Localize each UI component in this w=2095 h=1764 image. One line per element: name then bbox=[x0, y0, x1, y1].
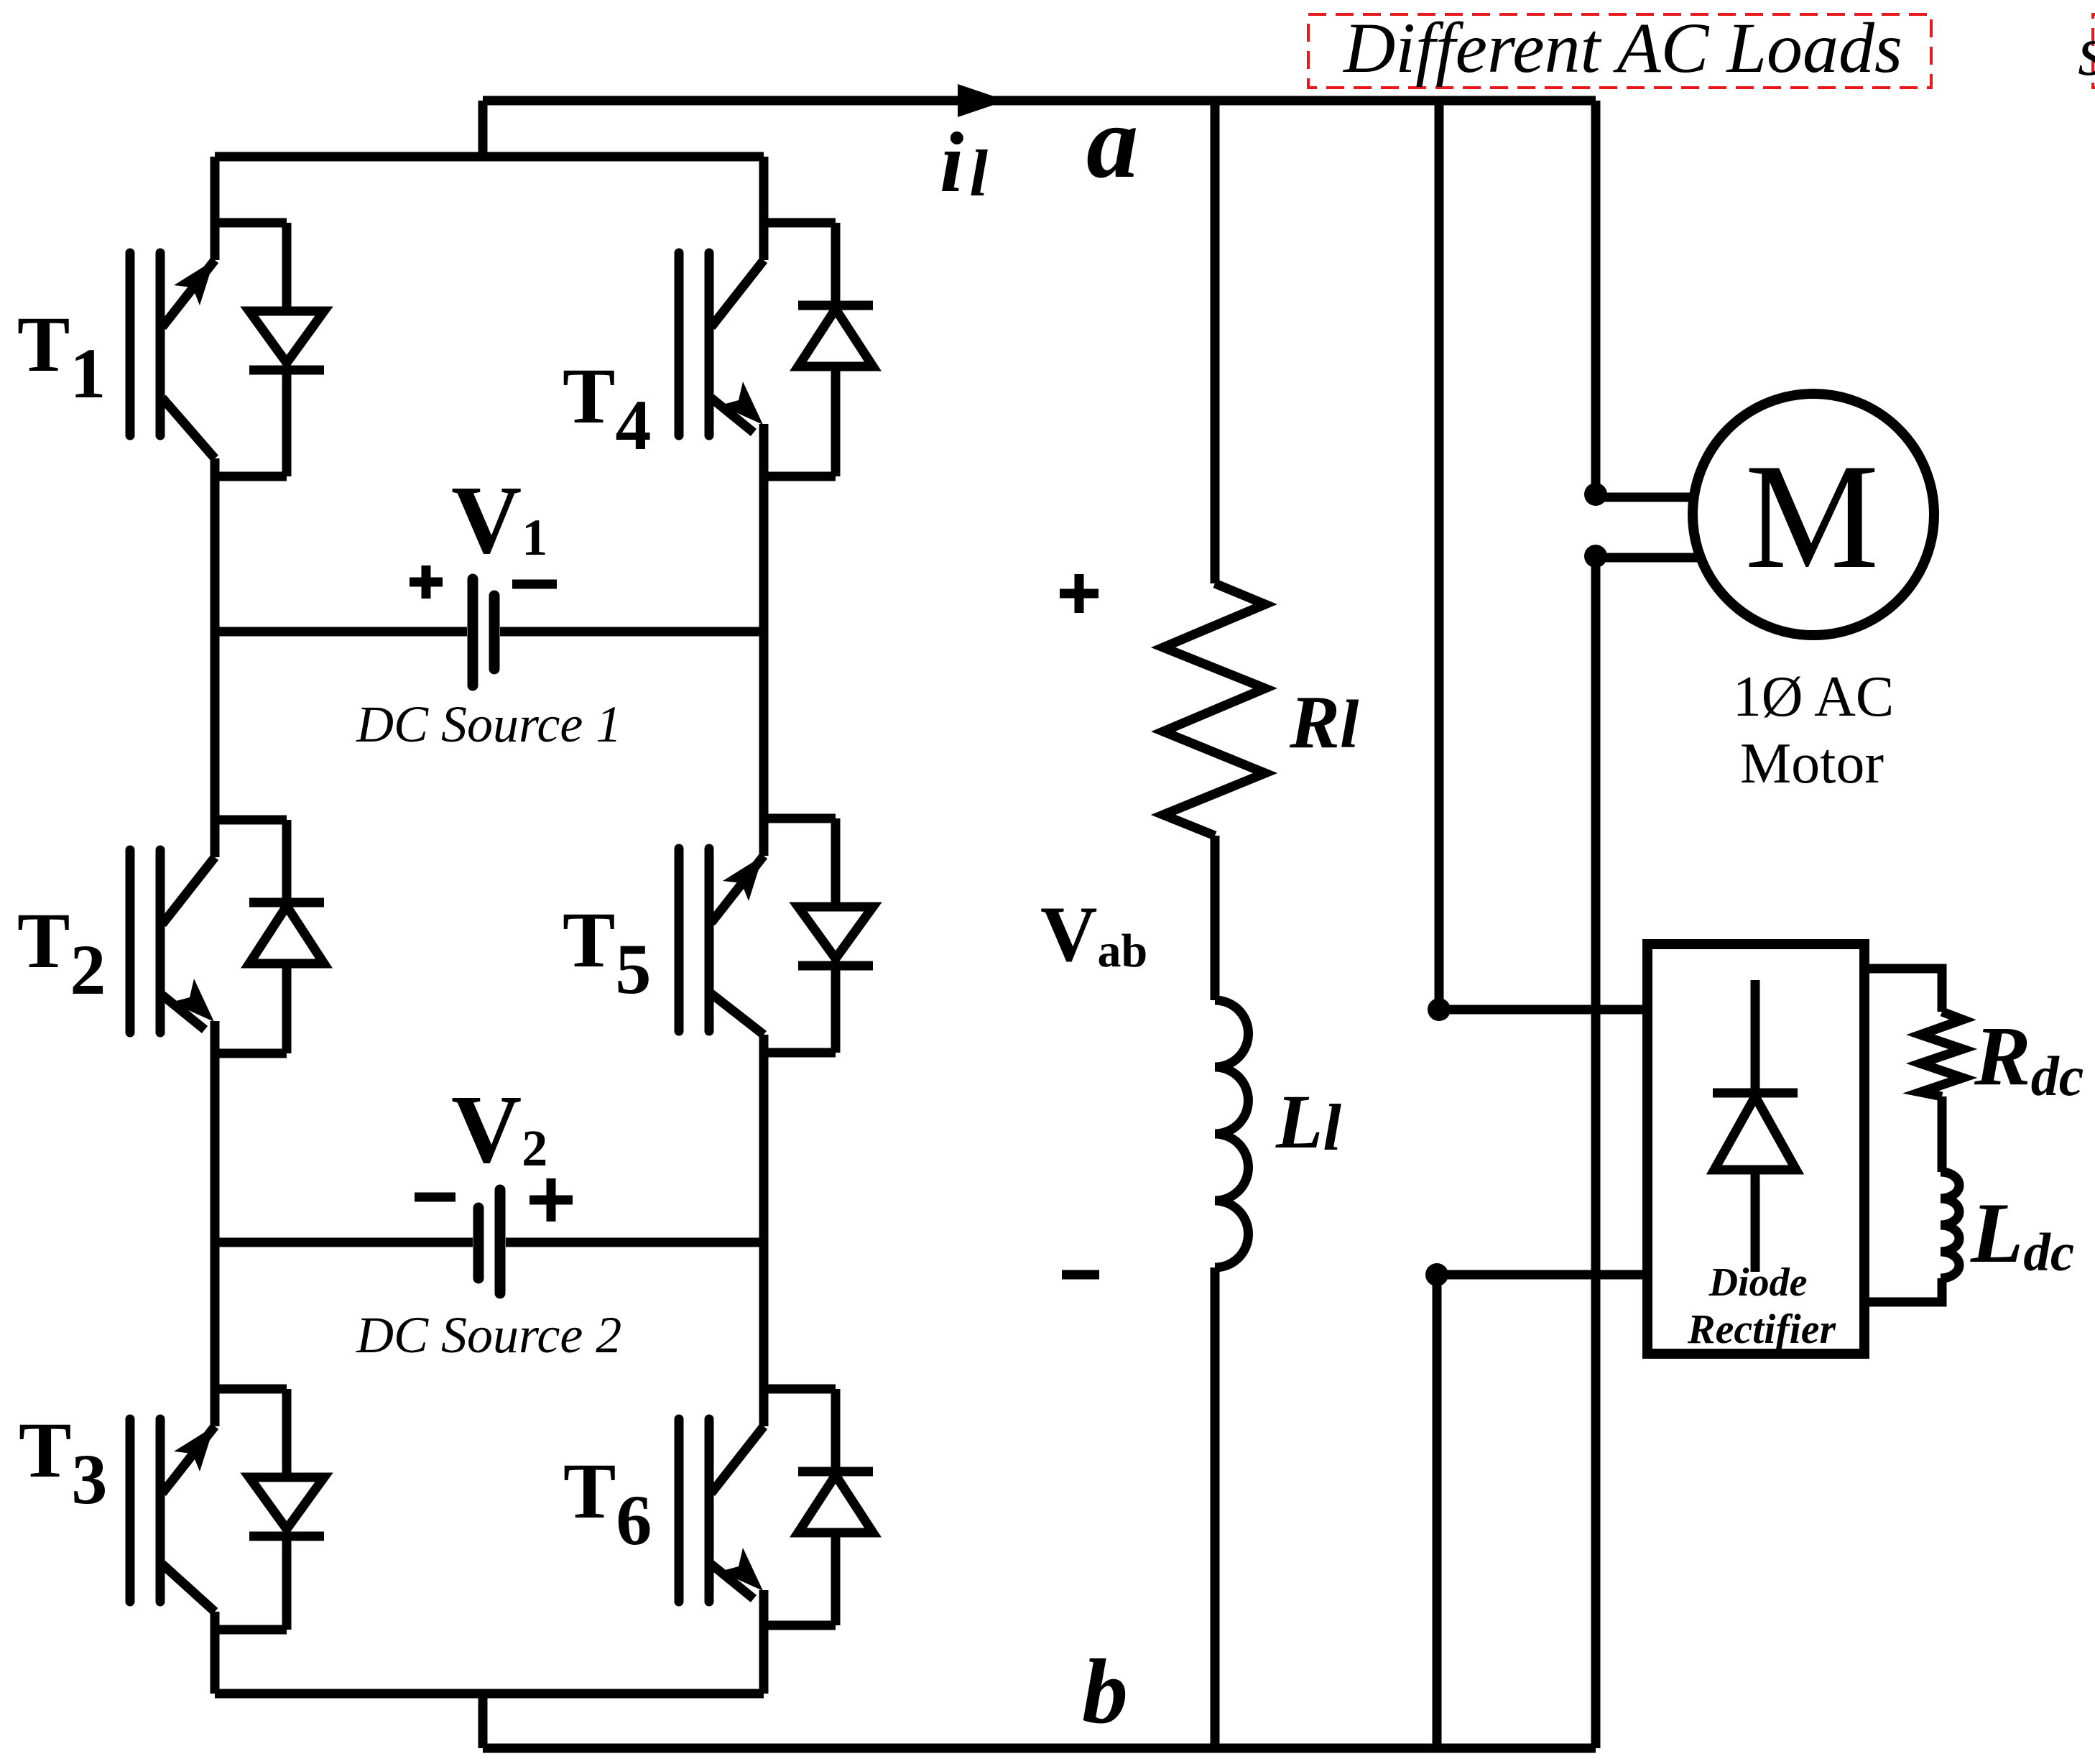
wire: jog from bridge bottom bus down to bottom rail (node b side) bbox=[478, 1694, 488, 1748]
svg-text:M: M bbox=[1745, 433, 1879, 600]
battery V2 (DC Source 2) bbox=[478, 1190, 500, 1293]
wire: right column T5 emitter to V2 to T6 collector bbox=[759, 1035, 769, 1426]
svg-text:V1: V1 bbox=[451, 466, 547, 574]
wire: junction to rectifier box upper input bbox=[1439, 1005, 1647, 1015]
node: motor lower terminal dot bbox=[1584, 545, 1607, 568]
wire: rectifier output top to R_dc bbox=[1864, 969, 1942, 1012]
diode: anti-parallel diode of T1 bbox=[249, 223, 324, 476]
wire: T1 collector-to-diode top stub bbox=[215, 218, 287, 228]
svg-text:Rl: Rl bbox=[1289, 680, 1359, 764]
resistor R_dc (zigzag) bbox=[1920, 1012, 1963, 1096]
wire: right column T4 emitter to V1 to T5 collector bbox=[759, 424, 769, 856]
label: polarity + at node a side bbox=[1060, 574, 1099, 613]
resistor R_l (zigzag) bbox=[1163, 583, 1265, 836]
battery V1 (DC Source 1) bbox=[473, 579, 494, 685]
diode: anti-parallel diode of T6 bbox=[798, 1389, 873, 1625]
wire: T4 collector-to-diode top stub bbox=[764, 218, 836, 228]
label: polarity - of V2 bbox=[415, 1193, 455, 1202]
wire: T2 emitter-to-diode bottom stub bbox=[215, 1049, 287, 1058]
label: 1-phase AC Motor bbox=[1733, 665, 1895, 795]
svg-text:s: s bbox=[2078, 11, 2095, 91]
label: Diode Rectifier bbox=[1687, 1260, 1836, 1352]
inductor L_dc (coil) bbox=[1941, 1172, 1959, 1278]
wire: left column T2 emitter to V2 to T3 collector bbox=[211, 1021, 220, 1426]
node: motor upper terminal dot bbox=[1584, 483, 1607, 506]
wire: T5 emitter-to-diode bottom stub bbox=[764, 1048, 836, 1058]
transistor T6 (IGBT) bbox=[679, 1419, 764, 1602]
svg-text:Diode: Diode bbox=[1708, 1260, 1808, 1305]
wire: bottom output rail (node b) bbox=[483, 1744, 1596, 1753]
wire: T6 collector-to-diode top stub bbox=[764, 1385, 836, 1394]
svg-text:T5: T5 bbox=[563, 896, 651, 1009]
wire: T3 emitter-to-diode bottom stub bbox=[215, 1625, 287, 1635]
annotation box: second dashed box cropped at right edge bbox=[2093, 14, 2095, 88]
node: junction dot at rectifier upper input bbox=[1428, 998, 1451, 1021]
wire: T5 collector-to-diode top stub bbox=[764, 814, 836, 823]
label: polarity - at node b side bbox=[1062, 1270, 1099, 1280]
transistor T1 (IGBT) bbox=[130, 253, 215, 458]
svg-text:T4: T4 bbox=[563, 352, 651, 465]
wire: motor upper terminal lead bbox=[1596, 493, 1694, 502]
wire: bridge bottom bus connecting T3 and T6 emitters bbox=[215, 1689, 764, 1699]
label: polarity - of V1 bbox=[512, 580, 557, 589]
svg-text:1Ø AC: 1Ø AC bbox=[1733, 665, 1895, 729]
label: polarity + of V2 bbox=[529, 1178, 573, 1222]
diode: anti-parallel diode of T3 bbox=[249, 1389, 324, 1630]
svg-text:Vab: Vab bbox=[1040, 890, 1147, 978]
arrowhead: load current direction i_l bbox=[958, 84, 1007, 117]
diode: anti-parallel diode of T2 bbox=[249, 820, 324, 1053]
wire: node a down to resistor R_l bbox=[1211, 101, 1220, 583]
svg-text:Ldc: Ldc bbox=[1970, 1185, 2074, 1283]
svg-text:DC Source 2: DC Source 2 bbox=[356, 1306, 621, 1364]
svg-text:il: il bbox=[940, 114, 988, 210]
wire: left column T1 emitter to V1 to T2 collector bbox=[211, 458, 220, 857]
wire: junction to rectifier box lower input bbox=[1437, 1270, 1647, 1280]
diode: rectifier diode symbol bbox=[1713, 980, 1798, 1272]
wire: between R_dc and L_dc bbox=[1938, 1096, 1947, 1172]
block: diode rectifier box bbox=[1647, 944, 1864, 1354]
wire: right column T6 emitter down to bridge bottom bus bbox=[759, 1590, 769, 1694]
wire: T6 emitter-to-diode bottom stub bbox=[764, 1621, 836, 1630]
svg-text:b: b bbox=[1082, 1640, 1128, 1742]
wire: left column T3 emitter down to bridge bottom bus bbox=[211, 1612, 220, 1694]
annotation box: Different AC Loads (red dashed) bbox=[1308, 14, 1931, 88]
node: junction dot at rectifier lower input bbox=[1425, 1263, 1448, 1286]
svg-text:Motor: Motor bbox=[1740, 732, 1884, 795]
svg-text:Different AC Loads: Different AC Loads bbox=[1342, 8, 1902, 88]
wire: T2 collector-to-diode top stub bbox=[215, 816, 287, 825]
diode: anti-parallel diode of T5 bbox=[798, 818, 873, 1053]
wire: rail end down to motor upper terminal bbox=[1591, 101, 1601, 494]
wire: V1 row right segment bbox=[500, 627, 764, 637]
wire: V1 row left segment bbox=[215, 627, 467, 637]
svg-text:T1: T1 bbox=[17, 300, 106, 413]
wire: between R_l and L_l bbox=[1211, 836, 1220, 1000]
svg-text:T6: T6 bbox=[563, 1447, 652, 1560]
svg-text:Rectifier: Rectifier bbox=[1687, 1306, 1836, 1352]
diode: anti-parallel diode of T4 bbox=[798, 223, 873, 476]
wire: right column T4 collector bbox=[759, 157, 769, 260]
transistor T2 (IGBT) bbox=[130, 850, 215, 1033]
wire: L_dc back to rectifier output bottom bbox=[1864, 1278, 1942, 1302]
wire: L_l down to node b rail bbox=[1211, 1267, 1220, 1748]
wire: left column T1 collector bbox=[211, 157, 220, 260]
svg-text:T2: T2 bbox=[17, 897, 106, 1010]
svg-text:DC Source 1: DC Source 1 bbox=[356, 696, 621, 753]
wire: jog from bridge top bus up to output rail (node a side) bbox=[478, 101, 488, 157]
wire: T1 emitter-to-diode bottom stub bbox=[215, 472, 287, 481]
wire: bridge top bus connecting T1 and T4 collectors bbox=[215, 152, 764, 162]
wire: V2 row left segment bbox=[215, 1238, 473, 1247]
transistor T4 (IGBT) bbox=[679, 253, 764, 435]
inductor L_l (coil) bbox=[1215, 1000, 1249, 1267]
transistor T5 (IGBT) bbox=[679, 849, 764, 1035]
wire: top output rail (node a) to AC loads bbox=[483, 96, 1596, 106]
wire: rectifier lower input down to bottom rail bbox=[1433, 1275, 1442, 1748]
wire: T4 emitter-to-diode bottom stub bbox=[764, 472, 836, 481]
wire: motor lower terminal lead bbox=[1596, 553, 1701, 563]
svg-text:Ll: Ll bbox=[1275, 1080, 1341, 1165]
transistor T3 (IGBT) bbox=[130, 1419, 215, 1612]
wire: motor lower terminal down to bottom rail bbox=[1591, 556, 1601, 1748]
motor M (1-phase AC motor) circle bbox=[1693, 394, 1934, 635]
label: polarity + of V1 bbox=[410, 565, 443, 599]
svg-text:T3: T3 bbox=[19, 1406, 107, 1519]
svg-text:a: a bbox=[1086, 85, 1139, 200]
wire: V2 row right segment bbox=[506, 1238, 764, 1247]
wire: top rail down to rectifier upper input bbox=[1435, 101, 1444, 1010]
wire: T3 collector-to-diode top stub bbox=[215, 1385, 287, 1394]
svg-text:V2: V2 bbox=[451, 1076, 547, 1183]
svg-text:Rdc: Rdc bbox=[1974, 1009, 2084, 1107]
